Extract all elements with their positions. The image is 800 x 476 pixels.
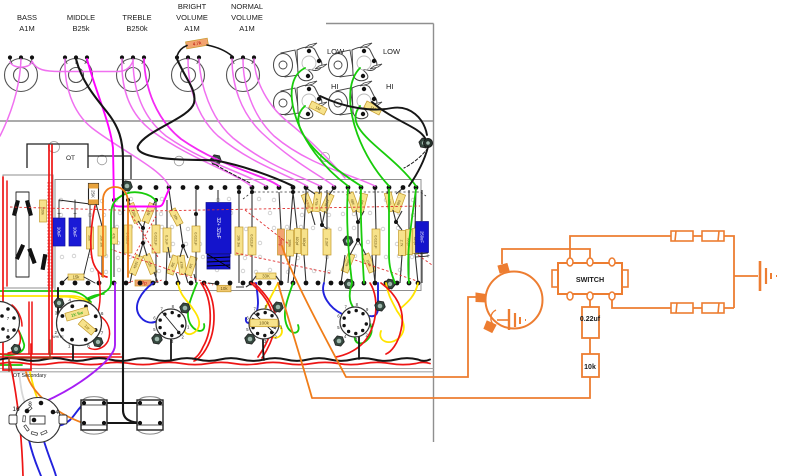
- wire orange 500p to footswitch run: [282, 246, 346, 377]
- wire black grommet to board t409: [409, 147, 428, 186]
- wire orange OT secondary to can1: [26, 372, 83, 423]
- pot 25K bias: [89, 184, 99, 205]
- svg-text:A1M: A1M: [184, 24, 199, 33]
- svg-text:16: 16: [12, 406, 20, 413]
- wire red OT pair: [49, 145, 52, 354]
- hex nut V1 a: [180, 303, 191, 313]
- speaker jack lugs: [25, 409, 30, 414]
- svg-text:25K: 25K: [91, 190, 96, 198]
- svg-text:VOLUME: VOLUME: [176, 13, 208, 22]
- wire OT to 25k pot frame: [88, 156, 131, 182]
- chassis hole: [321, 153, 330, 162]
- svg-text:0.022uF: 0.022uF: [250, 234, 254, 248]
- hex nut V5: [11, 344, 21, 353]
- svg-text:0.1uF: 0.1uF: [165, 235, 169, 245]
- hex nut V2 a: [273, 302, 284, 312]
- wire blue speaker jack to can1: [35, 404, 84, 426]
- svg-text:250uF: 250uF: [420, 231, 425, 243]
- wire purple board to speaker jack: [44, 283, 115, 402]
- svg-text:680pf: 680pf: [302, 238, 306, 247]
- wire magenta MIDDLE to board t169: [65, 59, 169, 186]
- resistor fs-R2: [702, 231, 724, 241]
- chassis hole: [68, 180, 76, 188]
- capacitor 680pf A: [301, 229, 308, 255]
- wire black can link bottom: [104, 422, 140, 424]
- svg-text:A1M: A1M: [239, 24, 254, 33]
- resistor 10k screen: [217, 285, 231, 292]
- svg-text:10k: 10k: [584, 364, 596, 371]
- wire red left edge loop: [3, 177, 31, 370]
- chassis right edge: [433, 24, 435, 443]
- wire yellow S3 drop: [262, 283, 282, 338]
- capacitor 680pf B: [406, 230, 413, 255]
- capacitor 820pf A: [294, 229, 301, 254]
- output transformer OT outline: [27, 144, 88, 168]
- svg-text:8: 8: [87, 344, 90, 349]
- svg-text:OT: OT: [66, 155, 75, 162]
- resistor 100k PI: [129, 254, 143, 275]
- svg-text:8: 8: [28, 401, 32, 408]
- wire white OT secondary: [19, 372, 27, 407]
- wire component leads main board: [96, 188, 422, 287]
- svg-text:500p: 500p: [279, 238, 283, 246]
- resistor 1M grid: [185, 256, 198, 276]
- svg-text:OT Secondary: OT Secondary: [13, 373, 47, 379]
- capacitor 1500pf: [301, 193, 315, 213]
- wire dark red OT primary: [9, 340, 52, 371]
- tube socket V5 octal partial: [0, 302, 20, 343]
- svg-text:32+ 32uF: 32+ 32uF: [215, 217, 221, 238]
- wire green jack1 HI to t361: [298, 106, 361, 186]
- wire orange 0.22uf to 10k: [589, 338, 591, 354]
- wire black jack sleeves to ground grommet: [320, 96, 427, 135]
- wire black heavy octal feed: [58, 288, 63, 332]
- capacitor 47p: [135, 280, 151, 286]
- chassis hole: [174, 156, 184, 166]
- turret dots top row: [124, 185, 129, 190]
- svg-text:820pf: 820pf: [295, 237, 299, 246]
- wire black dashed grommet leads: [404, 148, 428, 168]
- wire red S4 loop: [381, 283, 402, 354]
- resistor 100k C: [362, 253, 376, 273]
- wire orange to right ground: [734, 275, 758, 277]
- resistor 2.7k: [399, 231, 406, 256]
- footswitch jack circle: [486, 272, 543, 329]
- svg-text:MIDDLE: MIDDLE: [67, 13, 95, 22]
- chassis front edge: [0, 368, 434, 370]
- switch box: [552, 258, 628, 300]
- resistor 47k: [111, 228, 118, 244]
- wire yellow S2 drop: [178, 283, 199, 334]
- potentiometer BASS: [5, 55, 38, 91]
- wire red socket1 loops: [0, 305, 22, 353]
- red dashed annotation long: [10, 206, 420, 211]
- wire green board hook: [111, 192, 156, 283]
- svg-text:BASS: BASS: [17, 13, 37, 22]
- chassis hole: [97, 155, 107, 165]
- wire red S4 left arc: [336, 283, 376, 357]
- wire PSU leads: [59, 200, 95, 283]
- diode D3: [15, 244, 24, 259]
- bus dashed line on board: [243, 192, 426, 199]
- potentiometer MIDDLE: [60, 55, 93, 91]
- svg-text:6: 6: [101, 311, 104, 316]
- hex nut V3 a: [375, 301, 386, 311]
- svg-text:47k: 47k: [112, 233, 116, 239]
- resistor 1K 5w across V4: [65, 307, 89, 321]
- hex nut board middle: [343, 236, 353, 246]
- diode D2: [25, 200, 32, 215]
- wire green S3 loop: [285, 283, 299, 333]
- svg-text:SWITCH: SWITCH: [576, 275, 604, 284]
- resistor 1M channel1: [309, 101, 327, 115]
- svg-text:4: 4: [68, 297, 71, 302]
- capacitor 0.022uF C: [192, 226, 200, 252]
- svg-text:B250k: B250k: [126, 24, 148, 33]
- wire magenta NORMAL-M to t375: [243, 59, 375, 186]
- wire green octal to board: [80, 294, 104, 303]
- red dashed bus on PSU board: [48, 182, 51, 286]
- footswitch jack ground symbol: [491, 309, 526, 330]
- wire black S4 cathode drop: [358, 337, 360, 359]
- svg-text:LOW: LOW: [383, 47, 401, 56]
- svg-text:0.022uF: 0.022uF: [194, 232, 198, 246]
- resistor 4.7k bright cap: [186, 38, 209, 49]
- wire yellow OT secondary to speaker jack: [30, 372, 39, 402]
- red dashed at 47p: [128, 280, 162, 283]
- svg-text:10k: 10k: [220, 286, 228, 291]
- resistor 100k across V2: [250, 319, 278, 327]
- resistor 68k b: [356, 193, 367, 213]
- wire magenta BRIGHT-R to t320: [199, 59, 320, 186]
- svg-text:0.22uf: 0.22uf: [580, 316, 601, 323]
- resistor 10k coupling: [169, 208, 183, 226]
- wire black 4.7k leads: [177, 45, 232, 56]
- wire red S3 arc: [251, 283, 276, 358]
- wire orange switch bottom to bottom resistors: [612, 296, 734, 308]
- hex nut top right: [419, 138, 429, 148]
- svg-text:B25k: B25k: [72, 24, 89, 33]
- wire red S2 arc: [193, 283, 214, 361]
- capacitor 32+32uF can: [206, 203, 231, 254]
- svg-text:HI: HI: [386, 82, 394, 91]
- wire magenta NORMAL-R to t389 short: [254, 59, 345, 178]
- wire black S3 cathode drop: [263, 339, 264, 360]
- wire orange 10k return to board: [312, 377, 590, 398]
- input jack channel2 HI: [329, 81, 383, 119]
- svg-text:15k: 15k: [73, 275, 81, 280]
- wire orange footswitch tip to switch: [502, 249, 590, 264]
- turret dots middle: [141, 226, 145, 230]
- red dashed annotation diag3: [236, 210, 330, 273]
- resistor 3M: [166, 255, 179, 275]
- wire green bottom left horizontals: [0, 291, 91, 302]
- resistor 220k splitter: [127, 202, 141, 223]
- svg-text:10uF: 10uF: [73, 227, 78, 238]
- diode D4: [28, 248, 36, 263]
- tube socket V3 9-pin: [337, 302, 374, 342]
- resistor 470k A: [312, 192, 322, 212]
- ground symbol right: [760, 261, 777, 291]
- input jack channel2 LOW: [329, 43, 383, 81]
- wire green chassis bottom left: [0, 364, 22, 366]
- svg-text:5: 5: [88, 298, 91, 303]
- svg-text:33K: 33K: [262, 274, 270, 279]
- wire magenta TREBLE-R to t279 bright: [144, 59, 279, 186]
- wire yellow S4 drop b: [401, 283, 418, 308]
- wire yellow bottom-left horizontal: [0, 296, 92, 305]
- resistor fs-R4: [702, 303, 724, 313]
- resistor 82k PI: [143, 253, 157, 274]
- potentiometer BRIGHT: [172, 55, 205, 91]
- wire magenta NORMAL-L to t334: [232, 59, 334, 186]
- capacitor 250uF: [416, 222, 429, 253]
- resistor 1w across V4: [78, 319, 96, 335]
- svg-text:2.2nf: 2.2nf: [325, 238, 329, 247]
- wire blue t235 to S3: [246, 283, 258, 323]
- capacitor 10uF B: [69, 218, 81, 246]
- hex nut V4 a: [54, 298, 64, 308]
- capacitor 0.022uf A: [124, 225, 132, 253]
- chassis control-panel fold line: [0, 120, 434, 122]
- hex nut V3 b: [334, 336, 345, 346]
- capacitor 0.22uf: [582, 307, 599, 338]
- chassis top edge: [326, 23, 434, 25]
- svg-text:0.022uF: 0.022uF: [374, 235, 378, 249]
- footswitch jack lug top: [498, 264, 509, 274]
- wire blue bottom left drops: [29, 438, 56, 476]
- hex nut board bottom b: [385, 279, 395, 289]
- wire orange PSU arch: [103, 187, 128, 277]
- potentiometer TREBLE: [117, 55, 150, 91]
- resistor 68k c: [384, 192, 395, 212]
- wire yellow S4 drop a: [380, 283, 403, 342]
- tube socket V4 octal: [55, 297, 104, 348]
- diode D1: [12, 200, 19, 215]
- resistor fs-R1: [671, 231, 693, 241]
- grommet hex at board left: [122, 181, 133, 191]
- svg-text:TREBLE: TREBLE: [122, 13, 151, 22]
- svg-text:100k: 100k: [259, 321, 270, 326]
- hex nut V2 b: [245, 334, 256, 344]
- capacitor 0.022uf B: [152, 225, 160, 253]
- wire red PSU inner vertical: [6, 181, 8, 286]
- capacitor 820pf B: [412, 229, 419, 254]
- wire green jack1 LOW to t348: [292, 68, 348, 186]
- wire magenta pot link BASS-MIDDLE-TREBLE: [10, 61, 133, 72]
- diode D5: [41, 254, 47, 269]
- wire diode leads: [16, 192, 29, 277]
- capacitor 0.022uF D: [248, 227, 256, 255]
- wire magenta bright MIDDLE jog trace: [87, 59, 169, 207]
- wire green socket1 loop: [0, 309, 24, 355]
- wire red wavy chassis front: [0, 362, 430, 364]
- svg-text:+: +: [426, 253, 430, 260]
- svg-text:NORMAL: NORMAL: [231, 2, 263, 11]
- resistor 68k d: [392, 193, 405, 213]
- resistor fs-R3: [671, 303, 693, 313]
- input jack channel1 LOW: [274, 43, 328, 81]
- svg-text:VOLUME: VOLUME: [231, 13, 263, 22]
- svg-text:A1M: A1M: [19, 24, 34, 33]
- hex nut V4 b: [93, 337, 103, 347]
- power supply board outline: [3, 175, 53, 288]
- svg-text:BRIGHT: BRIGHT: [178, 2, 207, 11]
- wire red bottom horizontals: [0, 354, 122, 357]
- svg-text:2.7k: 2.7k: [400, 240, 404, 247]
- tube socket V1 9-pin: [153, 304, 190, 344]
- wire green board to octal pin5: [80, 283, 111, 303]
- wire black can link top: [104, 402, 140, 404]
- wire blue t375 to S4 right: [370, 283, 378, 316]
- wire red bottom left drop: [10, 362, 23, 476]
- capacitor 0.1uF: [163, 228, 171, 252]
- resistor 470k tail: [177, 255, 187, 275]
- resistor 220k PSU: [40, 200, 47, 222]
- board spare turret holes: [58, 197, 415, 274]
- wire orange footswitch sleeve feed: [346, 297, 480, 377]
- wire green jack2 HI to t416: [355, 106, 416, 186]
- resistor 10k footswitch: [582, 354, 599, 377]
- svg-text:3: 3: [55, 311, 58, 316]
- svg-text:1: 1: [68, 344, 71, 349]
- wire magenta BASS to chassis left: [0, 59, 21, 136]
- wire green S4 loop: [350, 283, 372, 343]
- wire black S2 cathode drop: [170, 339, 172, 360]
- wire orange switch to top resistors: [570, 236, 734, 308]
- svg-text:100k: 100k: [288, 239, 292, 247]
- resistor 68k a: [346, 192, 359, 212]
- svg-text:HI: HI: [331, 82, 339, 91]
- svg-text:LOW: LOW: [327, 47, 345, 56]
- wire magenta TREBLE-M to t266: [133, 59, 266, 186]
- resistor 15k: [68, 274, 84, 280]
- resistor 470k B: [320, 193, 334, 213]
- wire green jack2 LOW to t389: [350, 68, 389, 186]
- resistor 10k 3w B: [235, 227, 243, 255]
- resistor 33k splitter: [142, 202, 156, 223]
- wire magenta BRIGHT-M to t308: [188, 59, 307, 186]
- footswitch jack lug left: [476, 293, 486, 302]
- svg-text:7: 7: [101, 330, 104, 335]
- red dashed annotation diag1: [110, 249, 213, 285]
- wire black wavy chassis front: [0, 358, 430, 361]
- chassis hole: [49, 142, 60, 153]
- svg-text:0.022uF: 0.022uF: [154, 232, 158, 246]
- capacitor 0.022uF E: [372, 229, 380, 255]
- wire red vertical pair mid: [29, 302, 32, 354]
- red dashed annotation diag2: [132, 216, 158, 258]
- svg-text:10uF: 10uF: [57, 227, 62, 238]
- red dashed annotation diag4: [355, 255, 432, 282]
- wire black octal drop: [72, 345, 74, 360]
- potentiometer NORMAL: [227, 55, 260, 91]
- grommet hex mid chassis: [211, 155, 222, 165]
- svg-text:10k 3w: 10k 3w: [237, 235, 241, 247]
- wire black MIDDLE pot to filter cans: [76, 59, 138, 423]
- filter cap can 2: [9, 231, 777, 434]
- svg-text:4: 4: [55, 409, 59, 416]
- resistor 56k: [87, 227, 94, 249]
- input jack channel1 HI: [274, 81, 328, 119]
- wire red from 25k down board: [91, 206, 107, 277]
- capacitor 10uF A: [53, 218, 65, 246]
- speaker output jack: [9, 398, 67, 443]
- wire blue t153 to S2: [137, 283, 157, 323]
- filter cap can 1: [9, 231, 777, 434]
- capacitor 2.2nf: [323, 229, 331, 255]
- resistor 1M channel2: [364, 101, 382, 115]
- wire green vertical right board d: [408, 189, 416, 283]
- hex nut V1 b: [152, 334, 163, 344]
- capacitor 500p: [278, 229, 285, 255]
- resistor 390k: [341, 253, 355, 273]
- wire green S2 loop: [188, 283, 204, 331]
- grounding grommet right: [423, 138, 432, 147]
- wire green vertical right board b: [361, 189, 364, 283]
- turret dots bottom row: [60, 281, 65, 286]
- wire red octal right loop: [89, 271, 110, 349]
- resistor 10k 3w: [98, 226, 106, 256]
- main turret board outline: [55, 180, 421, 291]
- wire yellow octal top: [60, 297, 92, 305]
- wire magenta TREBLE-L to t251: [122, 59, 251, 186]
- tube socket V2 9-pin: [246, 304, 283, 344]
- wire green vertical right board a: [347, 189, 352, 283]
- resistor 33K: [256, 273, 276, 279]
- hex nut board bottom a: [344, 279, 354, 289]
- wire orange t278 to 10k return: [278, 283, 312, 398]
- resistor 100k B: [287, 230, 294, 256]
- svg-text:WHITE: WHITE: [52, 335, 64, 339]
- wire orange switch to 0.22uf: [589, 300, 591, 307]
- wire black BRIGHT pot to grommet to t293: [138, 59, 293, 186]
- wire blue t324 to S4 left: [323, 283, 342, 314]
- wire green vertical right board c: [389, 189, 395, 283]
- footswitch jack lug bottom: [484, 321, 496, 333]
